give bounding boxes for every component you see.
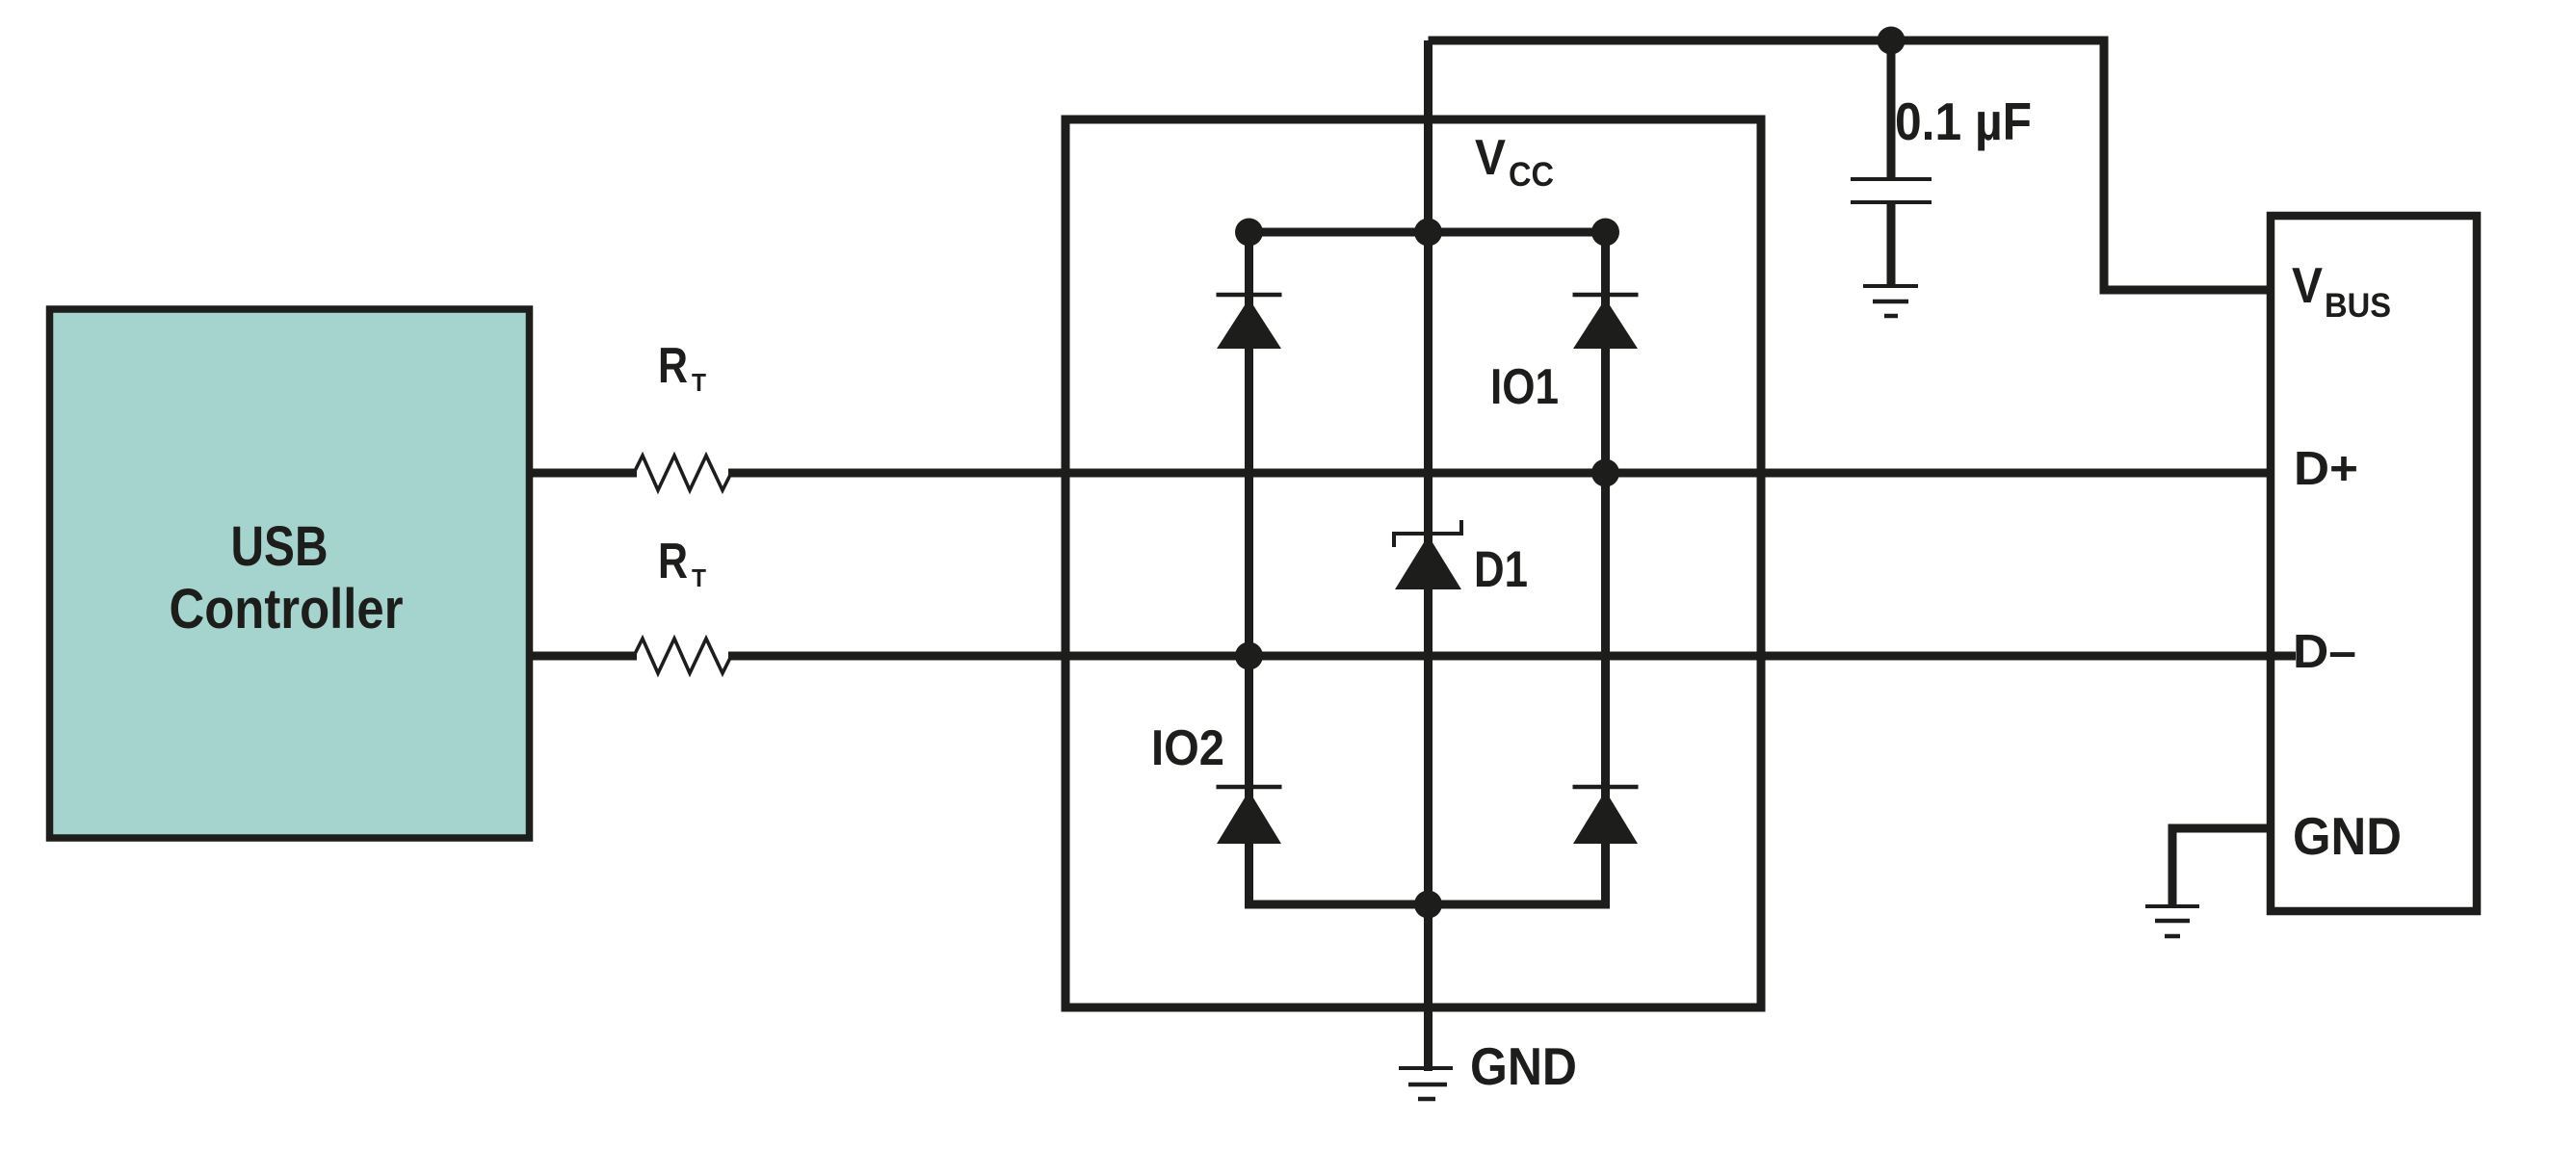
svg-text:GND: GND xyxy=(2293,806,2402,866)
svg-text:R: R xyxy=(658,534,688,589)
svg-text:GND: GND xyxy=(1470,1036,1577,1096)
svg-text:R: R xyxy=(658,338,688,394)
svg-text:BUS: BUS xyxy=(2325,287,2391,325)
svg-text:T: T xyxy=(692,563,706,592)
svg-text:0.1 µF: 0.1 µF xyxy=(1895,91,2032,151)
svg-text:D–: D– xyxy=(2293,626,2356,678)
svg-text:D+: D+ xyxy=(2294,443,2358,495)
svg-text:IO1: IO1 xyxy=(1490,359,1559,415)
svg-text:Controller: Controller xyxy=(170,578,404,640)
svg-text:USB: USB xyxy=(231,515,329,578)
svg-text:V: V xyxy=(1475,130,1506,186)
svg-text:D1: D1 xyxy=(1474,541,1528,598)
svg-text:V: V xyxy=(2292,258,2323,314)
svg-text:T: T xyxy=(692,368,706,397)
svg-text:CC: CC xyxy=(1509,156,1554,194)
svg-text:IO2: IO2 xyxy=(1151,720,1224,776)
